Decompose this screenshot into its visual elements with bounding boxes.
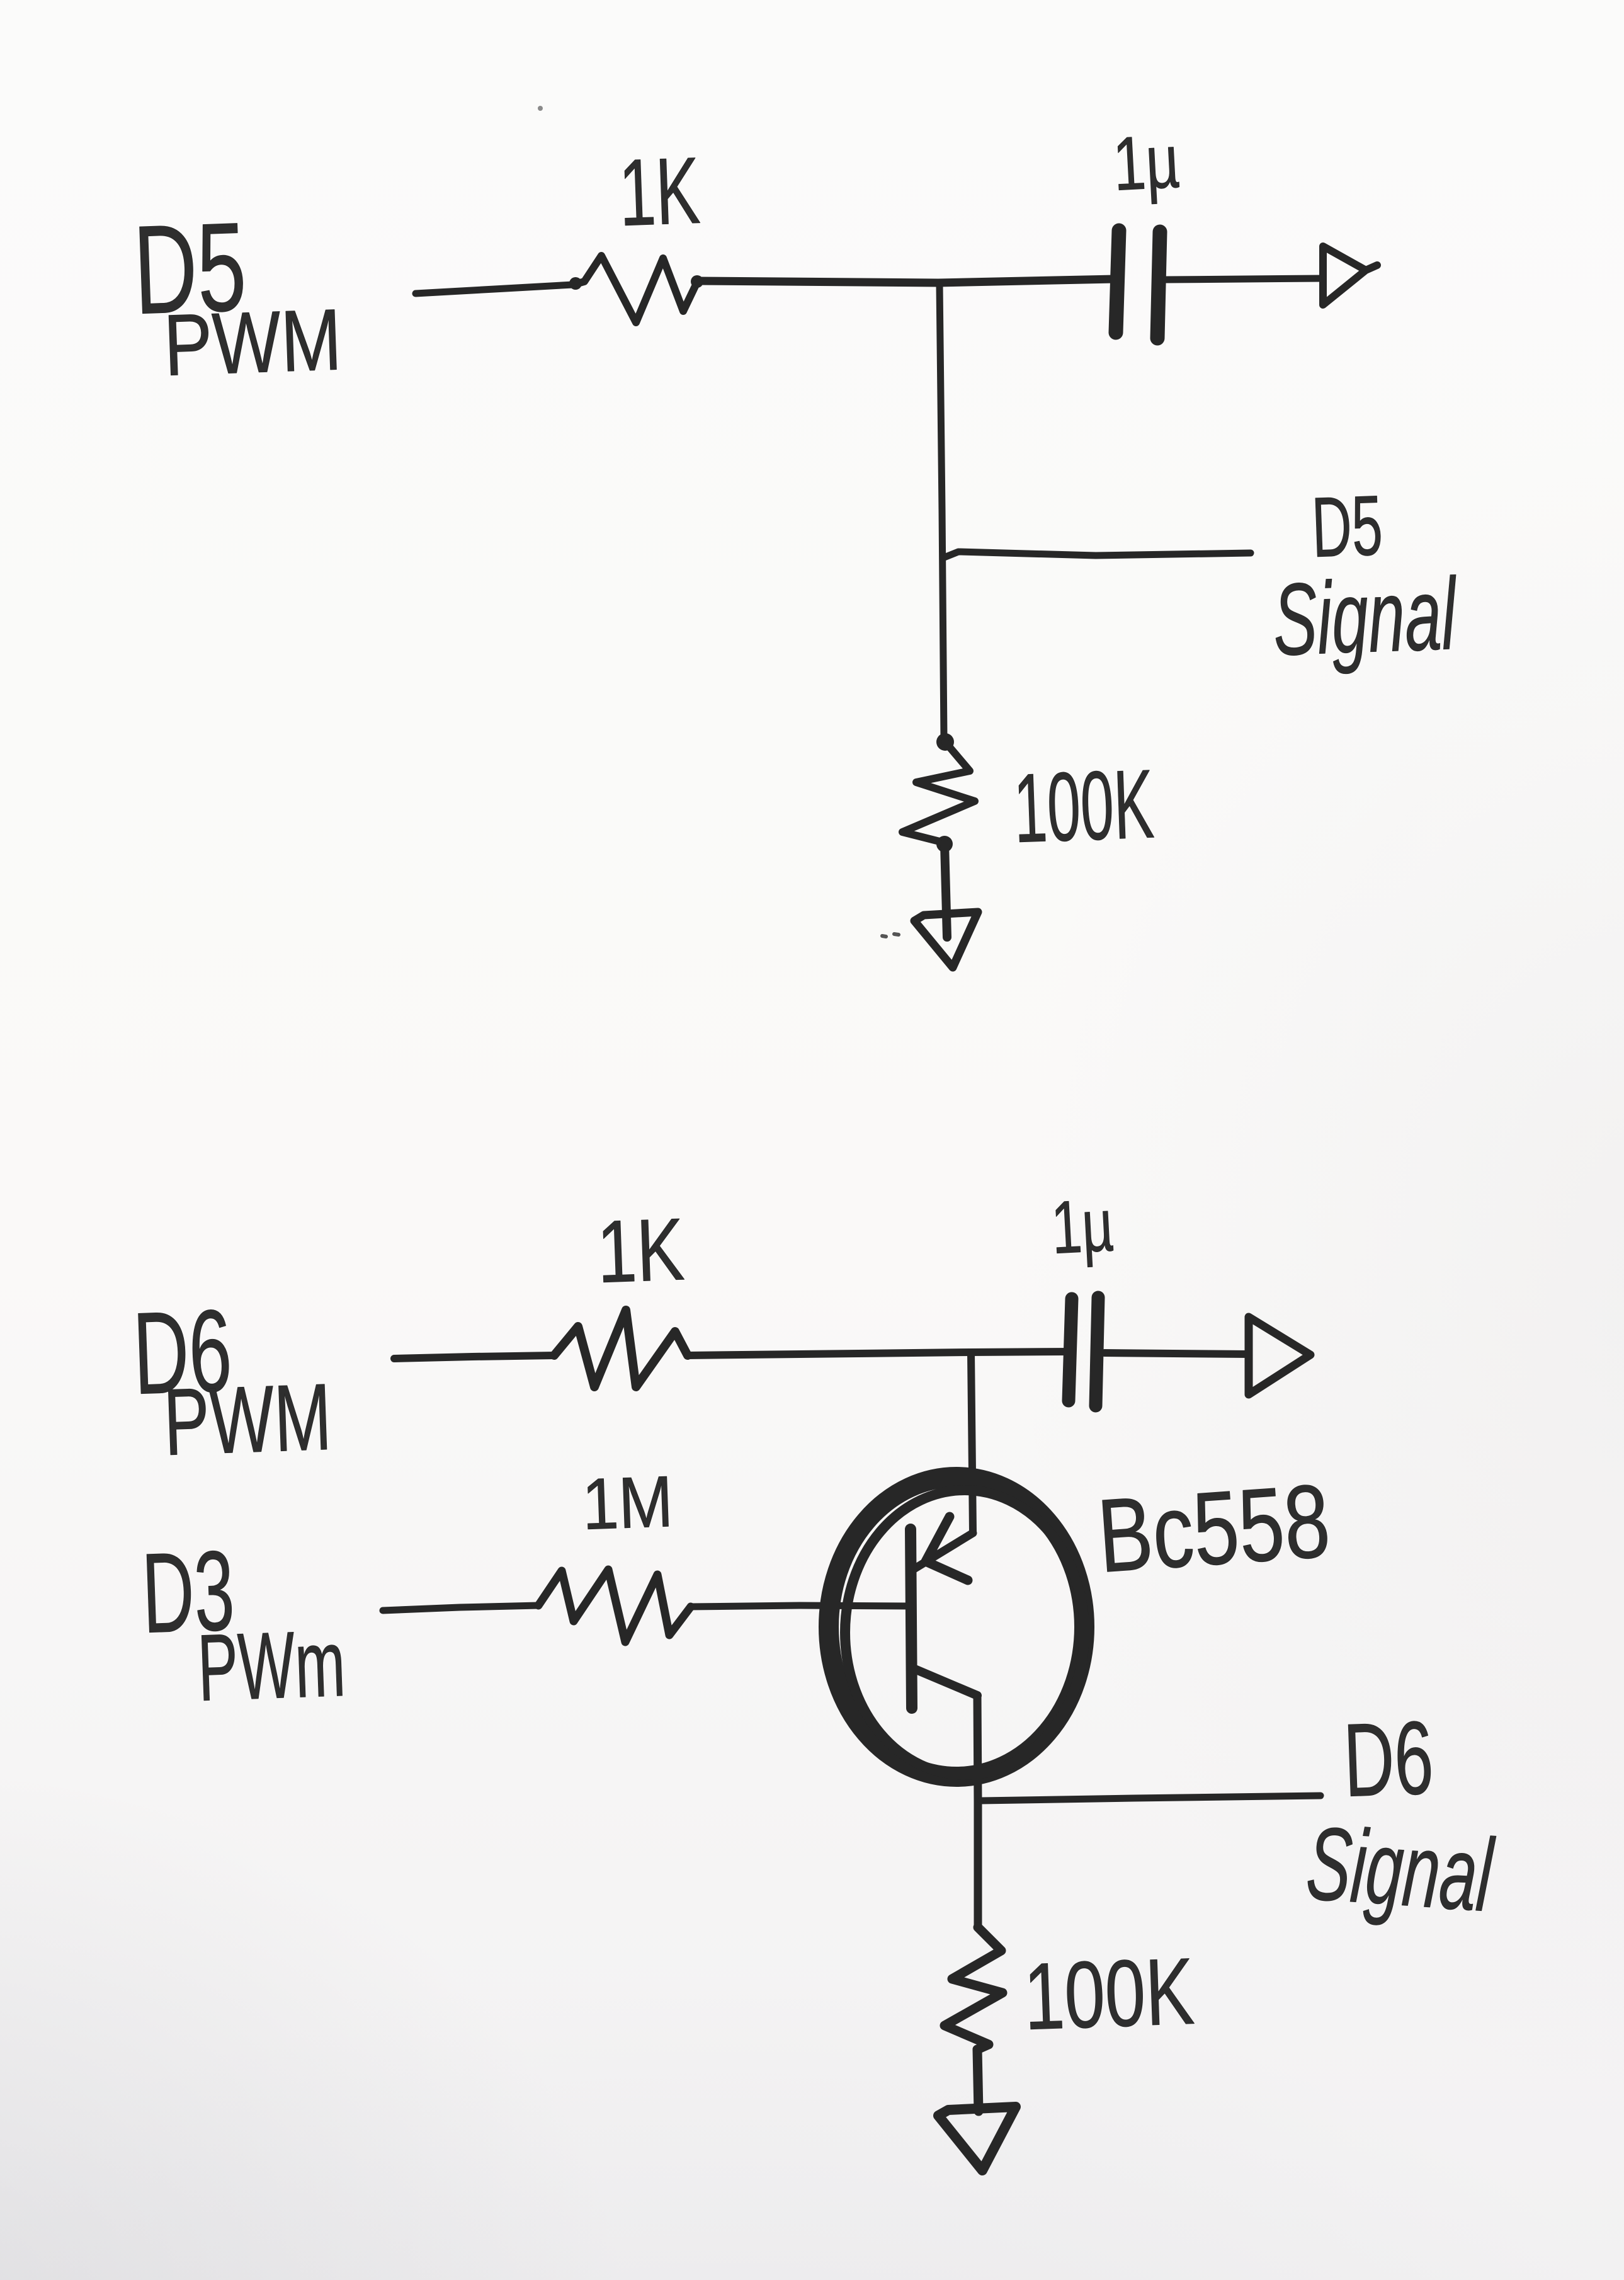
svg-text:1K: 1K <box>596 1199 686 1301</box>
output arrow (D6 audio out) <box>1249 1317 1310 1394</box>
ground (bottom circuit) <box>938 2107 1016 2170</box>
svg-text:100K: 100K <box>1022 1938 1196 2049</box>
wire C2 to output arrow <box>1104 1353 1248 1354</box>
svg-text:1µ: 1µ <box>1111 119 1181 207</box>
resistor R5 100K (vertical zigzag) <box>945 1927 1002 2049</box>
junction dot top of R2 <box>936 733 954 751</box>
wire D3 PWM to resistor R4 <box>383 1605 538 1610</box>
wire node A vertical down <box>940 285 944 738</box>
svg-text:Signal: Signal <box>1303 1804 1498 1933</box>
resistor R2 100K (vertical zigzag) <box>902 742 975 843</box>
transistor Q1 BC558 circle <box>829 1477 1084 1777</box>
wire C1 to output arrow <box>1166 278 1322 280</box>
wire R4 to Q1 base <box>691 1605 911 1607</box>
transistor Q1 circle second pass (hand overdraw) <box>845 1490 1084 1775</box>
capacitor C2 left plate <box>1069 1299 1072 1401</box>
svg-text:PWM: PWM <box>162 291 343 394</box>
svg-text:D6: D6 <box>1342 1699 1435 1818</box>
wire R1 to capacitor C1 through node A <box>698 279 1115 283</box>
svg-text:1K: 1K <box>617 137 701 246</box>
svg-text:PWM: PWM <box>162 1364 333 1475</box>
svg-text:1M: 1M <box>581 1461 674 1545</box>
Q1 emitter lead (diagonal) <box>913 1533 973 1570</box>
wire D5 PWM input to resistor R1 <box>416 285 573 294</box>
capacitor C1 left plate <box>1116 231 1119 333</box>
resistor R3 1K (zigzag) <box>554 1310 688 1387</box>
paper speck near top resistor <box>538 106 543 111</box>
svg-text:Bc558: Bc558 <box>1094 1462 1334 1594</box>
wire tap to D5 Signal <box>943 552 1251 558</box>
Q1 emitter arrowhead (PNP, pointing to base) <box>926 1517 968 1580</box>
Q1 collector lead (diagonal) <box>912 1668 977 1696</box>
wire D6 PWM to resistor R3 <box>394 1355 554 1359</box>
node dot at R1 left lead <box>569 277 582 290</box>
wire node B down to Q1 emitter <box>971 1353 973 1533</box>
capacitor C1 right plate <box>1157 232 1160 338</box>
output arrow (D5 audio out) <box>1323 246 1377 305</box>
resistor R1 1K (zigzag) <box>573 256 698 322</box>
wire R5 to ground <box>977 2049 979 2111</box>
paper specks near top ground <box>882 934 899 937</box>
svg-text:100K: 100K <box>1012 749 1156 863</box>
wire R3 to capacitor C2 through node B <box>688 1352 1070 1355</box>
svg-text:PWm: PWm <box>196 1610 347 1721</box>
junction dot bottom of R2 <box>936 836 953 852</box>
wire tap to D6 Signal <box>981 1796 1320 1801</box>
Q1 base bar <box>911 1529 912 1708</box>
node dot at R1 right lead <box>691 275 703 288</box>
capacitor C2 right plate <box>1096 1297 1098 1406</box>
svg-text:1µ: 1µ <box>1049 1183 1115 1270</box>
svg-text:Signal: Signal <box>1271 557 1460 677</box>
ground (top circuit) <box>914 912 978 967</box>
wire collector down to node C <box>977 1696 978 1927</box>
wire R2 to ground <box>945 844 947 937</box>
resistor R4 1M (zigzag) <box>538 1570 691 1642</box>
